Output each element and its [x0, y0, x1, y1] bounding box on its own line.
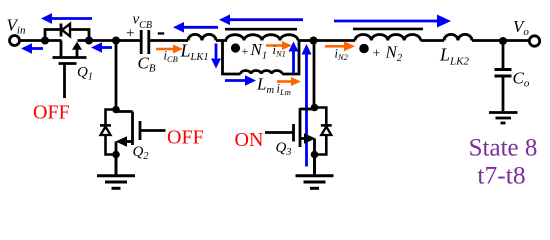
current arrow (blue, left) below Vin wire: [21, 43, 43, 54]
current arrow (blue, left) between node B and node C: [91, 42, 112, 53]
capacitor CB: [141, 30, 149, 54]
current arrow iLm (orange): [277, 77, 301, 86]
Q2 source arrow: [116, 136, 128, 146]
diode D2 (body diode of Q2): [100, 110, 116, 155]
svg-text:OFF: OFF: [33, 102, 70, 124]
wire node D down to Q3: [313, 41, 316, 109]
svg-text:+: +: [126, 26, 134, 42]
node B: [85, 37, 93, 45]
terminal Vo: [529, 36, 539, 46]
transistor Q2: [116, 112, 166, 155]
svg-text:+: +: [242, 44, 249, 58]
current arrow iN1 (orange): [266, 41, 292, 50]
node A: [41, 37, 49, 45]
node C: [112, 37, 120, 45]
transistor Q3: [265, 108, 315, 155]
Q3 source arrow: [304, 133, 316, 143]
inductor LLK2: [444, 34, 472, 40]
wire N2 to LLK2: [421, 39, 444, 42]
diode D3 (body diode of Q3): [315, 108, 332, 155]
wire diode branch: [45, 30, 89, 41]
inductor LLK1: [188, 34, 216, 40]
current arrow (blue, up, short) at loop right: [289, 42, 299, 74]
svg-text:+: +: [373, 47, 381, 62]
wire node B to capacitor CB: [78, 39, 142, 42]
junction dot Q2 source: [112, 151, 120, 159]
current arrow iN2 (orange): [325, 41, 355, 51]
junction dot Q2 drain: [112, 106, 120, 114]
Q1 source arrow: [72, 42, 82, 50]
current arrow (blue, left) upper row 1: [219, 14, 303, 25]
current arrow (blue, left) upper row 2: [173, 22, 218, 33]
wire Co to ground: [502, 76, 505, 111]
wire Vin to node A: [20, 39, 62, 42]
node D: [310, 37, 318, 45]
wire output node to Co: [502, 41, 505, 68]
ground (Co): [489, 113, 518, 124]
output node: [499, 37, 507, 45]
svg-text:OFF: OFF: [167, 127, 204, 149]
svg-text:ON: ON: [235, 129, 264, 151]
junction dot Q3 drain: [311, 104, 319, 112]
winding N1: [226, 35, 298, 41]
wire node C down to Q2: [115, 41, 118, 112]
diode D1 (body diode of Q1): [61, 24, 70, 37]
terminal Vin: [10, 36, 20, 46]
current arrow (blue, up, long) through Q3: [302, 44, 312, 167]
ground (Q2): [97, 155, 135, 189]
wire Lm loop (left and bottom and right): [223, 41, 241, 75]
polarity dot N1: [231, 43, 240, 52]
wire LLK2 to Vo: [472, 39, 530, 42]
core bar N2: [353, 28, 423, 31]
polarity dot N2: [359, 44, 369, 54]
svg-text:State 8: State 8: [469, 135, 538, 162]
winding N2: [355, 35, 421, 41]
current arrow (blue, down) at N1 left: [211, 44, 221, 69]
wire LLK1 to N1: [216, 39, 227, 42]
wire N1 to N2: [298, 39, 355, 42]
current arrow (blue, right) above N2: [334, 15, 451, 28]
winding Lm: [241, 71, 283, 74]
label - (CB): [158, 32, 164, 34]
core bar N1: [225, 28, 297, 31]
wire CB to LLK1: [150, 39, 188, 42]
junction dot Q3 source: [311, 151, 319, 159]
capacitor Co: [495, 70, 512, 77]
ground (Q3): [296, 155, 334, 189]
svg-text:t7-t8: t7-t8: [477, 161, 525, 190]
current arrow iCB (orange): [156, 45, 183, 54]
transistor Q1: [53, 41, 87, 99]
current arrow (blue, left) above diode: [41, 13, 92, 24]
current arrow (blue, right) on Lm wire: [225, 75, 256, 86]
